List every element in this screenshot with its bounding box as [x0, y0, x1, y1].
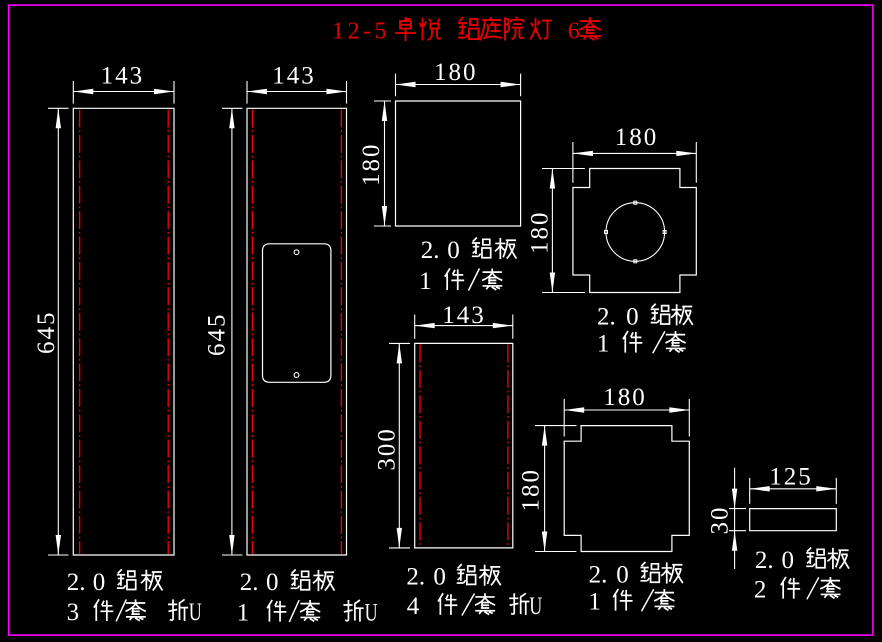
part6 dim 180 left extension+line [535, 426, 576, 552]
part1 bend centerline right [167, 110, 169, 555]
part1 plate outline 143x645 [73, 108, 174, 555]
svg-text:143: 143 [101, 62, 145, 89]
part2 dim 143 text [272, 62, 316, 89]
part5 quadrant point marker right [663, 231, 666, 234]
part3 label line1 2.0 aluminum plate [421, 237, 517, 264]
part7 dim 30 arrowheads [732, 489, 737, 551]
part5 dim 180 left arrowheads [550, 169, 555, 293]
svg-text:180: 180 [518, 468, 545, 512]
part7 dim 125 extension+line [750, 478, 837, 504]
part4 dim 143 text [442, 302, 486, 329]
part5 quadrant point marker left [605, 231, 608, 234]
svg-text:143: 143 [272, 62, 316, 89]
part1 dim 645 arrowheads [56, 108, 61, 555]
part2 door cutout rounded rect [263, 244, 331, 382]
title glyph tao (sets) [579, 17, 601, 40]
title text 6 [568, 19, 584, 45]
part7 dim 30 text [707, 506, 734, 535]
part1 dim 645 text [33, 311, 60, 355]
svg-text:0: 0 [447, 237, 460, 264]
part1 label line2 3 pcs/set fold-U [67, 598, 202, 626]
part2 plate outline 143x645 [247, 108, 347, 555]
part6 dim 180 top arrowheads [564, 407, 689, 412]
svg-text:1: 1 [237, 600, 250, 627]
svg-text:0: 0 [616, 562, 629, 589]
part2 bend centerline left [251, 110, 253, 555]
svg-text:125: 125 [769, 463, 813, 490]
svg-text:0: 0 [626, 303, 639, 330]
svg-text:2.: 2. [240, 569, 259, 596]
svg-text:2.: 2. [421, 237, 440, 264]
part1 label line1 2.0 aluminum plate [67, 569, 163, 596]
svg-text:1: 1 [419, 268, 432, 295]
part7 dim 125 text [769, 463, 813, 490]
part2 label line2 1 pc/set fold-U [237, 599, 378, 627]
part7 label line1 2.0 aluminum plate [755, 547, 849, 574]
part7 label line2 2 pcs/set [754, 577, 841, 604]
svg-text:2: 2 [754, 577, 767, 604]
part4 plate outline 143x300 [415, 343, 513, 548]
svg-text:2.: 2. [589, 562, 608, 589]
svg-text:180: 180 [603, 384, 647, 411]
part6 dim 180 top extension+line [564, 399, 689, 437]
svg-text:4: 4 [407, 593, 420, 620]
part5 quadrant point marker bottom [634, 260, 637, 263]
svg-text:2.: 2. [67, 569, 86, 596]
part2 screw hole bottom [294, 373, 299, 378]
svg-text:U: U [189, 598, 202, 626]
part4 bend centerline left [419, 345, 421, 548]
part5 dim 180 left text [527, 211, 554, 255]
part1 dim 645 extension+line [48, 108, 69, 555]
part5 notched cap plate 180x180 [573, 169, 696, 293]
svg-text:2.: 2. [406, 564, 425, 591]
part5 dim 180 top arrowheads [573, 151, 696, 156]
part4 dim 300 arrowheads [397, 343, 402, 548]
part1 dim 143 arrowheads [73, 89, 174, 94]
part6 notched base plate 180x180 [564, 426, 689, 552]
part3 dim 180 left extension+line [374, 101, 391, 226]
title text 12-5 [332, 19, 390, 45]
part4 dim 143 arrowheads [415, 323, 513, 328]
part3 dim 180 left arrowheads [382, 101, 387, 226]
svg-text:12-5: 12-5 [332, 19, 390, 45]
svg-text:0: 0 [93, 569, 106, 596]
part7 dim 125 arrowheads [750, 486, 837, 491]
svg-text:6: 6 [568, 19, 584, 45]
part1 dim 143 text [101, 62, 145, 89]
part4 label line2 4 pcs/set fold-U [407, 592, 543, 620]
part2 label line1 2.0 aluminum plate [240, 569, 335, 596]
part6 label line1 2.0 aluminum plate [589, 562, 683, 589]
part2 screw hole top [294, 250, 299, 255]
part2 dim 143 arrowheads [247, 89, 347, 94]
part6 label line2 1 pc/set [588, 589, 674, 616]
svg-text:2.: 2. [755, 547, 774, 574]
svg-text:3: 3 [67, 599, 80, 626]
svg-text:0: 0 [433, 564, 446, 591]
svg-text:2.: 2. [597, 303, 616, 330]
svg-text:180: 180 [527, 211, 554, 255]
svg-text:30: 30 [707, 506, 734, 535]
title glyphs lv ting yuan deng (aluminum courtyard lamp) [458, 17, 552, 41]
part3 dim 180 left text [358, 143, 385, 187]
part3 label line2 1 pc/set [419, 268, 502, 295]
part2 dim 645 extension+line [222, 108, 243, 555]
svg-text:645: 645 [33, 311, 60, 355]
title glyphs zhuo yue (brand) [395, 17, 441, 41]
part3 dim 180 top text [434, 59, 478, 86]
part5 circle hole [606, 203, 665, 262]
part3 dim 180 top arrowheads [396, 82, 521, 87]
part2 dim 645 arrowheads [229, 108, 234, 555]
part4 bend centerline right [507, 345, 509, 548]
part5 label line2 1 pc/set [597, 331, 686, 358]
part7 strip plate 125x30 [750, 509, 837, 531]
part2 bend centerline right [340, 110, 342, 555]
part2 dim 645 text [203, 313, 230, 357]
part7 dim 30 extension+line [729, 468, 746, 569]
part5 dim 180 top text [615, 124, 659, 151]
svg-text:645: 645 [203, 313, 230, 357]
part6 dim 180 top text [603, 384, 647, 411]
svg-text:180: 180 [615, 124, 659, 151]
svg-text:0: 0 [782, 547, 795, 574]
svg-text:1: 1 [588, 589, 601, 616]
svg-text:180: 180 [358, 143, 385, 187]
part1 bend centerline left [79, 110, 81, 555]
part5 dim 180 top extension+line [573, 142, 696, 183]
part4 dim 300 extension+line [389, 343, 410, 548]
part1 dim 143 extension+line [73, 81, 174, 104]
part4 dim 143 extension+line [415, 315, 513, 339]
part3 square plate 180x180 [396, 101, 521, 226]
part4 dim 300 text [374, 427, 401, 471]
svg-text:300: 300 [374, 427, 401, 471]
svg-text:1: 1 [597, 331, 610, 358]
part5 quadrant point marker top [634, 201, 637, 204]
svg-text:U: U [365, 599, 378, 627]
part2 dim 143 extension+line [247, 81, 347, 104]
part4 label line1 2.0 aluminum plate [406, 564, 500, 591]
part3 dim 180 top extension+line [396, 74, 521, 97]
part5 dim 180 left extension+line [542, 169, 585, 293]
part6 dim 180 left text [518, 468, 545, 512]
svg-text:143: 143 [442, 302, 486, 329]
svg-text:U: U [529, 592, 542, 620]
svg-text:180: 180 [434, 59, 478, 86]
part5 label line1 2.0 aluminum plate [597, 303, 693, 330]
part6 dim 180 left arrowheads [542, 426, 547, 552]
svg-text:0: 0 [266, 569, 279, 596]
